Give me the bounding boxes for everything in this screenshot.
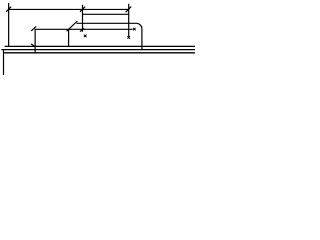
boss base left edge: [68, 29, 70, 46]
tick dim1 mid: [80, 7, 85, 12]
long line A: [5, 45, 195, 47]
boss right corner arc: [136, 23, 142, 29]
extension line right x128.8: [128, 4, 130, 37]
tick dim1 left: [6, 7, 11, 12]
extension line mid x82.5: [82, 5, 84, 32]
x mark left: [84, 35, 87, 38]
long line C: [4, 52, 196, 54]
x mark right upper: [133, 28, 136, 31]
backslash tick at x35 / line A: [31, 44, 35, 47]
extension line left x8.65: [8, 3, 10, 46]
tick surface mid: [80, 28, 84, 32]
surface dimension line: [35, 28, 133, 30]
boss top edge: [77, 22, 137, 24]
long line B: [1, 49, 195, 51]
dimension line 2: [83, 13, 129, 15]
dimension line 1: [9, 8, 129, 10]
tick surface left: [31, 26, 36, 31]
boss base right edge: [141, 29, 143, 50]
bottom left vertical: [3, 50, 5, 75]
x mark right lower: [127, 36, 130, 39]
boss left chamfer slash: [67, 21, 78, 31]
tick dim1 right: [126, 7, 132, 13]
extension line x35: [34, 29, 36, 52]
